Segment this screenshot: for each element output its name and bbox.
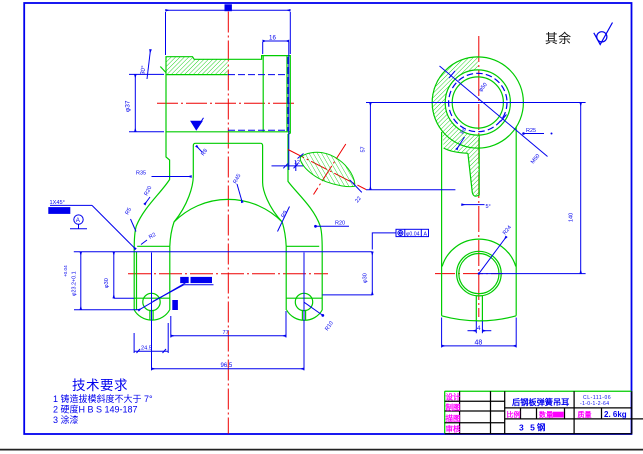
slot top edge [196, 142, 261, 144]
dim 4 [468, 330, 477, 332]
eye outer circle [432, 57, 523, 148]
extension line phi23 bottom [74, 309, 138, 311]
leader 30deg [147, 50, 151, 80]
lower slot [475, 296, 477, 321]
svg-text:140: 140 [569, 213, 575, 222]
gdt frame [396, 229, 429, 236]
centerline vertical main axis [227, 12, 229, 434]
left foot inner edge [169, 246, 171, 310]
svg-text:数量: 数量 [539, 410, 553, 419]
svg-text:比例: 比例 [507, 410, 521, 419]
dim phi30 right with extension [322, 294, 372, 296]
right view vertical centerline [478, 36, 480, 317]
leader R6 oil [457, 137, 465, 150]
svg-text:后钢板弹簧吊耳: 后钢板弹簧吊耳 [512, 397, 569, 407]
right foot top edge [286, 245, 319, 247]
svg-text:48: 48 [475, 340, 483, 347]
svg-text:描图: 描图 [446, 413, 461, 423]
leader R9 [278, 207, 290, 232]
dim phi30 left [113, 252, 115, 299]
svg-text:96.5: 96.5 [221, 363, 233, 369]
svg-text:1 铸造拔模斜度不大于 7°: 1 铸造拔模斜度不大于 7° [53, 393, 153, 404]
right foot hole [295, 293, 312, 310]
machining mark in cylinder [191, 121, 202, 130]
oil passage right edge [478, 136, 480, 196]
leader R35 [152, 176, 192, 178]
hatch top boss section [166, 57, 228, 75]
leader R45 [237, 184, 242, 203]
dim phi37 [134, 74, 136, 131]
svg-text:φ30: φ30 [362, 273, 368, 283]
title block black grid [445, 391, 643, 434]
chamfer 30deg [160, 67, 166, 73]
eye diagonal dimension [440, 66, 548, 157]
left foot chamfer inner line [136, 252, 138, 310]
left foot top edge [137, 245, 170, 247]
dot [551, 133, 553, 135]
dim 16 [263, 40, 289, 42]
small label block foot [173, 301, 178, 310]
svg-text:质量: 质量 [578, 410, 592, 419]
shank bottom curve [442, 316, 517, 321]
leader R10 [304, 302, 323, 315]
oil passage tip [472, 193, 479, 197]
top dimension text block [225, 5, 231, 11]
leader R20 left flank [145, 197, 151, 205]
shank left edge [441, 132, 443, 316]
dim 57 [369, 103, 371, 190]
svg-text:4: 4 [477, 325, 481, 332]
left foot bottom arc [134, 310, 169, 320]
svg-text:5°: 5° [486, 204, 491, 210]
svg-text:+0.04: +0.04 [63, 265, 68, 277]
bore section line under hatch [166, 74, 228, 76]
svg-text:技术要求: 技术要求 [72, 378, 128, 393]
right foot bottom arc [287, 310, 323, 320]
lower hole horizontal centerline [435, 273, 503, 275]
quantity magenta fill [553, 412, 564, 418]
leader foot 2 [138, 283, 186, 311]
datum A symbol [74, 215, 83, 224]
ext line y103 across eye [366, 102, 586, 104]
svg-text:12: 12 [294, 160, 300, 166]
dim 12 rib [272, 165, 305, 167]
dim 77 [171, 335, 286, 337]
leaf outline [300, 152, 354, 186]
svg-text:24.5: 24.5 [141, 346, 152, 352]
svg-text:R25: R25 [526, 128, 536, 134]
svg-text:φ0.04: φ0.04 [406, 232, 420, 238]
leaf left tick [298, 154, 304, 159]
left foot slot [149, 310, 151, 320]
slot left wall [170, 143, 196, 246]
svg-text:审核: 审核 [446, 423, 461, 433]
leader R20 right [314, 225, 317, 228]
svg-text:77: 77 [223, 330, 229, 336]
dim 24.5 [134, 350, 168, 352]
leaf cross centerline [314, 144, 346, 195]
solid label block [49, 208, 70, 214]
title block magenta labels [446, 392, 592, 434]
svg-text:-1-0-1-2-64: -1-0-1-2-64 [580, 401, 609, 407]
leader 1x45 [50, 204, 92, 206]
leader M10 [153, 285, 184, 302]
svg-text:16: 16 [269, 34, 276, 41]
gdt frame leader [372, 233, 396, 250]
shank right edge [515, 127, 517, 316]
centerline horizontal cylinder axis [157, 102, 297, 104]
cylinder inner step lines [262, 56, 264, 132]
eye ring circle [445, 70, 510, 135]
svg-text:设计: 设计 [446, 392, 461, 402]
right foot slot [301, 310, 303, 320]
boss arc [442, 239, 516, 266]
ext line 57 bottom [366, 189, 455, 191]
right foot inner edge [285, 246, 287, 310]
svg-text:1X45°: 1X45° [50, 200, 65, 206]
ext 140 bottom [479, 273, 586, 275]
leader R2 [141, 240, 147, 245]
slot right wall [260, 143, 286, 246]
dim 96.5 [152, 368, 305, 370]
svg-text:2. 6kg: 2. 6kg [604, 410, 627, 419]
fork arch [174, 199, 282, 222]
cylinder outline [166, 56, 290, 132]
svg-text:φ23.2+0.1: φ23.2+0.1 [72, 271, 78, 296]
leader R8 [196, 146, 202, 153]
dim phi23.2 [80, 252, 82, 310]
centerline feet horizontal [128, 273, 328, 275]
body right profile [288, 132, 322, 310]
main view dimension labels [50, 34, 428, 369]
dim 22 leader [350, 180, 362, 192]
right foot mid line [286, 297, 322, 299]
dim 48 [442, 345, 517, 347]
long extension line feet top [74, 251, 373, 253]
taper 5deg line [462, 204, 485, 206]
svg-text:R35: R35 [136, 171, 146, 177]
right view dimension labels [361, 82, 575, 346]
svg-text:3 5钢: 3 5钢 [519, 423, 547, 433]
oil passage left edge [444, 148, 468, 153]
detail section leaf [288, 144, 366, 195]
svg-text:φ30: φ30 [104, 278, 110, 288]
finish symbol [594, 23, 613, 45]
eye section hatch [431, 57, 479, 196]
svg-text:R20: R20 [335, 221, 345, 227]
svg-text:3 涂漆: 3 涂漆 [53, 414, 79, 425]
dim 140 [580, 103, 582, 274]
lower hole inner [459, 254, 499, 294]
extension line left phi30 bottom [114, 297, 134, 299]
left foot hole [143, 293, 160, 310]
leader R24 [479, 237, 507, 274]
svg-text:其余: 其余 [545, 31, 572, 46]
hidden thread circle [449, 73, 507, 131]
leaf centerline axis [288, 150, 366, 190]
leader R5 [131, 219, 137, 232]
svg-text:A: A [424, 232, 428, 238]
svg-text:2 硬度H B S 149-187: 2 硬度H B S 149-187 [53, 404, 138, 415]
hidden bore lines [228, 74, 287, 76]
rib ext tick [295, 161, 297, 171]
bottom page line [0, 449, 643, 451]
lower hole outer [457, 251, 502, 296]
left foot mid line [134, 297, 170, 299]
top dimension line [166, 9, 291, 11]
extension lines top [165, 12, 167, 55]
svg-text:制图: 制图 [446, 402, 461, 412]
eye bore circle [452, 77, 503, 128]
svg-text:φ37: φ37 [125, 100, 132, 112]
body left profile [134, 132, 169, 310]
svg-text:57: 57 [361, 146, 367, 152]
leader R25 [522, 132, 525, 135]
